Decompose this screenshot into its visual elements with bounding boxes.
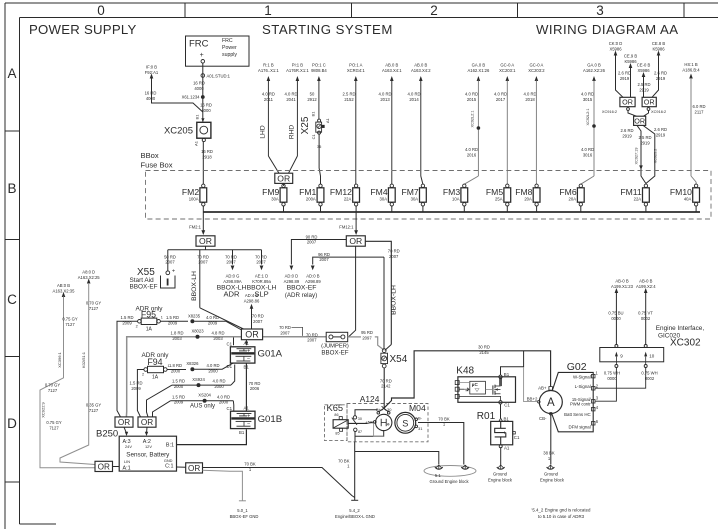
svg-text:70 RD: 70 RD <box>255 254 267 259</box>
svg-text:7127: 7127 <box>89 306 99 311</box>
wire FM2:1 <box>202 212 204 231</box>
svg-text:Ground: Ground <box>493 472 508 477</box>
svg-text:Engine block: Engine block <box>488 478 513 483</box>
svg-text:G02: G02 <box>567 361 587 373</box>
svg-text:0000: 0000 <box>611 316 621 321</box>
svg-text:2007: 2007 <box>307 338 317 343</box>
svg-text:22A: 22A <box>344 196 352 201</box>
svg-text:OR: OR <box>349 236 362 246</box>
relay K65 coil <box>333 420 348 429</box>
svg-text:G01A: G01A <box>258 349 283 360</box>
svg-text:4000: 4000 <box>146 96 156 101</box>
svg-text:2009: 2009 <box>208 320 218 325</box>
svg-text:38 BK: 38 BK <box>543 451 555 456</box>
svg-text:BBox: BBox <box>141 151 159 160</box>
svg-text:4.0 RD: 4.0 RD <box>465 92 478 97</box>
svg-text:BBOX-EF: BBOX-EF <box>287 284 317 291</box>
wire OR1 to X55, 50 RD 2007 <box>167 250 169 271</box>
K48 microcontroller symbol <box>470 381 486 394</box>
svg-text:XC927:19: XC927:19 <box>634 148 638 165</box>
svg-text:4000: 4000 <box>194 86 204 91</box>
svg-text:70 RD: 70 RD <box>388 248 400 253</box>
svg-text:A298.86: A298.86 <box>244 299 260 304</box>
svg-text:22A: 22A <box>634 196 642 201</box>
svg-text:XC916:2: XC916:2 <box>651 109 666 114</box>
svg-text:2009: 2009 <box>122 320 132 325</box>
svg-text:2017: 2017 <box>496 97 506 102</box>
svg-text:XC302: XC302 <box>670 338 701 349</box>
svg-text:1.5 RD: 1.5 RD <box>172 394 185 399</box>
svg-text:2117: 2117 <box>694 109 704 114</box>
K48 left pins <box>455 381 459 385</box>
svg-text:4.0 RD: 4.0 RD <box>206 363 219 368</box>
svg-text:IF:0 B: IF:0 B <box>146 65 157 70</box>
svg-text:2000: 2000 <box>174 384 184 389</box>
svg-text:K48: K48 <box>456 366 474 377</box>
wire middle OR to FM11 right branch <box>643 125 655 183</box>
svg-text:AB:0 B: AB:0 B <box>57 283 70 288</box>
svg-text:A199.X2:4: A199.X2:4 <box>636 284 656 289</box>
svg-text:0002: 0002 <box>641 316 651 321</box>
svg-text:6.0 RD: 6.0 RD <box>692 104 705 109</box>
svg-text:2000: 2000 <box>219 400 229 405</box>
svg-text:OR: OR <box>118 418 130 427</box>
wire BBOX-LH diagonal to OR-G01A <box>200 308 244 329</box>
svg-text:RHD: RHD <box>289 125 296 140</box>
svg-text:7127: 7127 <box>65 322 75 327</box>
svg-text:20A: 20A <box>569 196 577 201</box>
svg-text:96 RD: 96 RD <box>318 252 330 257</box>
svg-text:X5986: X5986 <box>637 68 650 73</box>
svg-text:A1: A1 <box>194 140 199 146</box>
svg-text:A01.STUD:1: A01.STUD:1 <box>207 73 231 78</box>
OR gate OR2 under FM12 <box>346 236 365 246</box>
wire XC302 pin10 to G02 pin2, 0.75 WH 0002 <box>595 368 646 389</box>
fuse FM9 30A <box>280 188 287 202</box>
ground engine block ellipse 5.1 <box>424 466 476 477</box>
svg-text:70 RD: 70 RD <box>306 332 318 337</box>
svg-text:OR: OR <box>245 330 259 340</box>
OR gate top-right <box>642 97 656 106</box>
svg-text:GA.0 B: GA.0 B <box>472 63 486 68</box>
svg-text:D1: D1 <box>227 364 233 369</box>
fuse FM7 30A <box>420 188 427 202</box>
wire to FM10 <box>690 78 692 176</box>
svg-text:2016: 2016 <box>467 152 477 157</box>
svg-text:POWER SUPPLY: POWER SUPPLY <box>29 22 137 37</box>
OR gate OR1 under FM2 <box>196 236 215 246</box>
svg-text:K5986: K5986 <box>624 59 637 64</box>
svg-text:2007: 2007 <box>226 260 236 265</box>
svg-text:86: 86 <box>334 413 338 417</box>
svg-text:2.5 RD: 2.5 RD <box>342 92 355 97</box>
svg-text:4.0 RD: 4.0 RD <box>494 92 507 97</box>
svg-text:2919: 2919 <box>656 132 666 137</box>
wire gray to BB+2 from K48 B1 node <box>524 367 538 402</box>
svg-text:AUS only: AUS only <box>190 404 215 410</box>
fuse FM8 20A <box>533 188 540 202</box>
svg-text:4.0 RD: 4.0 RD <box>212 379 225 384</box>
svg-text:90 RD: 90 RD <box>306 234 318 239</box>
svg-text:1: 1 <box>161 316 163 320</box>
svg-text:A298.89A: A298.89A <box>223 279 242 284</box>
svg-text:4.0 RD: 4.0 RD <box>581 147 594 152</box>
svg-text:0.35 GY: 0.35 GY <box>86 403 102 408</box>
wire 4.0 RD 2000 up to G01A D1 node <box>231 365 235 386</box>
svg-text:M04: M04 <box>409 403 426 413</box>
svg-text:2013: 2013 <box>380 97 390 102</box>
wire FRC output <box>202 63 204 121</box>
wire 0.75 BU 0000 <box>615 293 617 345</box>
svg-text:A199.X1:23: A199.X1:23 <box>611 284 634 289</box>
svg-text:XC925:2: XC925:2 <box>654 149 658 164</box>
wire XC205 to FM2 <box>202 142 204 185</box>
svg-text:5.0_1: 5.0_1 <box>237 508 248 513</box>
fuse FM10 40A <box>693 188 700 202</box>
svg-text:2006: 2006 <box>250 386 260 391</box>
svg-text:2142: 2142 <box>381 384 391 389</box>
svg-text:2015: 2015 <box>467 97 477 102</box>
svg-text:2000: 2000 <box>171 369 181 374</box>
wire 1.5 RD 2009 row XS204 AUS only <box>153 401 171 417</box>
svg-text:2: 2 <box>142 373 144 377</box>
svg-text:70 BK: 70 BK <box>244 462 256 467</box>
svg-text:OR: OR <box>634 116 645 125</box>
svg-text:2919: 2919 <box>639 87 649 92</box>
OR gate B250 A:1 <box>95 461 113 471</box>
svg-text:AD:4 B: AD:4 B <box>245 293 258 298</box>
svg-text:+: + <box>172 269 175 275</box>
connector XC302 box <box>600 348 664 362</box>
svg-text:2919: 2919 <box>656 76 666 81</box>
svg-text:4.0 RD: 4.0 RD <box>378 92 391 97</box>
svg-text:A298.89: A298.89 <box>305 279 321 284</box>
svg-text:4000: 4000 <box>201 108 211 113</box>
wire middle OR to FM11 left branch <box>637 125 646 183</box>
svg-text:G01B: G01B <box>258 414 283 425</box>
svg-text:C1: C1 <box>514 435 520 440</box>
svg-text:A162.X2:26: A162.X2:26 <box>583 68 606 73</box>
svg-text:OR: OR <box>98 462 110 471</box>
wire OR1 to BBOX-LH SLP, 70 RD 2007 <box>261 250 263 265</box>
switch contact 30/87 <box>353 416 356 419</box>
fuse FM6 20A <box>577 188 584 202</box>
svg-text:2007: 2007 <box>253 319 263 324</box>
svg-text:A186.B:4: A186.B:4 <box>682 67 700 72</box>
svg-text:K5986: K5986 <box>652 46 665 51</box>
node XS924 <box>197 383 201 387</box>
svg-text:X5986: X5986 <box>609 46 622 51</box>
svg-text:50 RD: 50 RD <box>164 254 176 259</box>
svg-text:A8:0 D: A8:0 D <box>82 270 95 275</box>
svg-text:A124: A124 <box>360 394 380 404</box>
wire X25 to FM1 <box>319 134 320 184</box>
XC302 pin 9 <box>615 345 618 348</box>
svg-text:BBOX-EF GND: BBOX-EF GND <box>230 514 259 519</box>
wire FM12:1 <box>355 212 357 231</box>
svg-text:100A: 100A <box>189 196 199 201</box>
svg-text:70 BK: 70 BK <box>338 458 350 463</box>
svg-text:2919: 2919 <box>640 140 650 145</box>
svg-text:B: B <box>7 181 16 196</box>
fuse FM1 200A <box>317 188 324 202</box>
svg-text:'5.4_2 Engine gnd is relocated: '5.4_2 Engine gnd is relocated <box>532 508 591 513</box>
svg-text:2919: 2919 <box>620 76 630 81</box>
svg-text:XC922:9: XC922:9 <box>41 401 46 417</box>
wire gray 1.8 RD 2003 line <box>127 337 348 412</box>
wire jumper to X54, 95 RD 2097 <box>348 336 361 338</box>
svg-text:2.6 RD: 2.6 RD <box>654 71 667 76</box>
OR gate B250 C:1 <box>186 463 203 473</box>
svg-text:XC92L2:1: XC92L2:1 <box>471 111 475 128</box>
svg-text:A176R.X1:1: A176R.X1:1 <box>286 68 309 73</box>
svg-text:40A: 40A <box>684 196 692 201</box>
svg-text:70 RD: 70 RD <box>252 314 264 319</box>
svg-text:1.8 RD: 1.8 RD <box>169 363 182 368</box>
wire OR2 bottom output to jumper junction <box>348 246 355 337</box>
ground 5.4_2 Engine/BBOX-L GND <box>351 499 358 501</box>
svg-text:XC205: XC205 <box>164 125 193 136</box>
svg-text:Ground: Ground <box>544 472 559 477</box>
svg-text:2007: 2007 <box>319 257 329 262</box>
svg-text:B1: B1 <box>239 430 245 435</box>
wire solenoid bottom to switch-87 wire <box>355 430 384 436</box>
K48 drain bar <box>499 378 501 386</box>
svg-text:0002: 0002 <box>645 376 655 381</box>
svg-text:2919: 2919 <box>622 133 632 138</box>
svg-text:Batt Sens HC: Batt Sens HC <box>564 412 591 417</box>
svg-text:30 RD: 30 RD <box>478 344 490 349</box>
svg-text:GND: GND <box>164 458 173 463</box>
svg-text:XCRG4:1: XCRG4:1 <box>347 68 366 73</box>
wire OR1 output rail <box>205 246 207 250</box>
wire G01B B1 down to B250 B:1 <box>177 429 247 444</box>
svg-text:2003: 2003 <box>213 336 223 341</box>
wire F95 left 1.5 RD 2009 <box>117 321 138 417</box>
svg-text:16 RD: 16 RD <box>193 81 205 86</box>
svg-text:CB-: CB- <box>539 416 547 421</box>
svg-text:50: 50 <box>310 92 315 97</box>
svg-text:F92:A1: F92:A1 <box>145 70 159 75</box>
wire switch-30 to B+ rail <box>355 410 378 416</box>
wire XC302 pin9 to G02 pin3, 0.75 WH 0000 <box>595 368 616 402</box>
svg-text:4.0 RD: 4.0 RD <box>284 92 297 97</box>
svg-text:R:1 B: R:1 B <box>263 63 274 68</box>
svg-text:4.0 RD: 4.0 RD <box>465 147 478 152</box>
svg-text:BBOX-EF: BBOX-EF <box>321 350 348 357</box>
node X8326 <box>190 367 194 371</box>
svg-text:70 BK: 70 BK <box>438 416 450 421</box>
svg-text:0.75 GY: 0.75 GY <box>46 420 62 425</box>
svg-text:2009: 2009 <box>168 320 178 325</box>
svg-text:1A: 1A <box>146 327 153 333</box>
svg-text:HS:1 B: HS:1 B <box>684 62 697 67</box>
OR gate above FM9 <box>275 173 293 183</box>
svg-text:A1: A1 <box>325 117 330 123</box>
svg-text:0.70 GY: 0.70 GY <box>86 301 102 306</box>
svg-text:2145: 2145 <box>479 350 489 355</box>
svg-text:30A: 30A <box>380 196 388 201</box>
svg-text:2918: 2918 <box>202 154 212 159</box>
wire K65 coil to +50a <box>348 422 367 424</box>
OR gate top-left <box>620 97 635 106</box>
svg-text:Ground Engine block: Ground Engine block <box>429 479 469 484</box>
svg-text:FM12:1: FM12:1 <box>339 225 354 230</box>
svg-text:1A: 1A <box>152 375 159 381</box>
svg-text:A163.X2:35: A163.X2:35 <box>53 288 76 293</box>
svg-text:20A: 20A <box>524 196 532 201</box>
wire K48 B1 to 30 RD line <box>501 351 524 375</box>
svg-text:95 RD: 95 RD <box>361 330 373 335</box>
wire M04 to engine block ground 70 BK <box>418 423 464 465</box>
svg-text:A176..X1:1: A176..X1:1 <box>258 68 279 73</box>
fuse FM5 25A <box>504 188 511 202</box>
svg-text:0.75 WH: 0.75 WH <box>641 371 657 376</box>
svg-text:D: D <box>7 416 17 431</box>
svg-text:C1: C1 <box>504 403 510 408</box>
svg-text:12V: 12V <box>145 444 152 449</box>
svg-text:XC916:2: XC916:2 <box>602 109 617 114</box>
svg-text:4.0 RD: 4.0 RD <box>217 394 230 399</box>
svg-text:2912: 2912 <box>307 97 317 102</box>
svg-text:AD:0 B: AD:0 B <box>306 274 319 279</box>
svg-text:AB.0 B: AB.0 B <box>385 63 398 68</box>
svg-text:X8023: X8023 <box>191 329 204 334</box>
svg-text:+: + <box>200 52 204 59</box>
svg-text:16 RD: 16 RD <box>145 91 157 96</box>
svg-text:4.0 RD: 4.0 RD <box>523 92 536 97</box>
svg-text:A298.89: A298.89 <box>284 279 300 284</box>
wire to OR left <box>616 55 624 97</box>
svg-text:C1: C1 <box>227 406 233 411</box>
svg-text:2041: 2041 <box>286 97 296 102</box>
svg-text:ADR: ADR <box>223 290 240 299</box>
svg-text:2003: 2003 <box>172 336 182 341</box>
svg-text:XS924: XS924 <box>192 377 205 382</box>
wire from F92 to XC205 <box>152 79 203 113</box>
svg-text:0: 0 <box>97 3 105 18</box>
svg-text:2007: 2007 <box>280 331 290 336</box>
svg-text:2.6 RD: 2.6 RD <box>618 71 631 76</box>
K48 MOSFET symbol <box>492 385 494 394</box>
svg-text:F94: F94 <box>147 357 162 367</box>
OR gate feeding G01A <box>241 329 262 340</box>
fuse FM2 100A <box>200 188 207 202</box>
svg-text:XS204: XS204 <box>198 393 211 398</box>
svg-text:(ADR relay): (ADR relay) <box>285 292 317 299</box>
svg-text:2007: 2007 <box>198 260 208 265</box>
svg-text:2.6 RD: 2.6 RD <box>654 127 667 132</box>
svg-text:FRC: FRC <box>222 38 233 44</box>
fuse FM4 30A <box>388 188 395 202</box>
svg-text:30: 30 <box>358 417 362 421</box>
svg-text:3015: 3015 <box>583 97 593 102</box>
wire A124 ground exit 70 BK <box>354 442 356 500</box>
wire OR1 BBOX-LH branch, 70 RD 2007 <box>199 250 201 308</box>
svg-text:GA.0 B: GA.0 B <box>587 63 601 68</box>
wire branch to engine block ground <box>355 452 439 465</box>
svg-text:0.75 VT: 0.75 VT <box>638 311 653 316</box>
svg-text:CK:0 D: CK:0 D <box>609 41 623 46</box>
svg-text:85: 85 <box>335 431 339 435</box>
svg-text:AB-0 B: AB-0 B <box>615 279 628 284</box>
svg-text:16 RD: 16 RD <box>200 103 212 108</box>
wire to FM3 <box>464 176 478 184</box>
svg-text:2: 2 <box>430 3 438 18</box>
svg-text:µC: µC <box>472 382 479 387</box>
svg-text:70 RD: 70 RD <box>225 254 237 259</box>
svg-text:R01: R01 <box>477 411 496 422</box>
svg-text:4.0 RD: 4.0 RD <box>206 315 219 320</box>
svg-text:30A: 30A <box>411 196 419 201</box>
svg-text:LIN: LIN <box>124 459 130 464</box>
svg-text:PO:1 A: PO:1 A <box>349 63 362 68</box>
svg-text:GC-0 A: GC-0 A <box>530 63 544 68</box>
svg-text:Fuse Box: Fuse Box <box>141 161 173 170</box>
svg-text:2152: 2152 <box>344 97 354 102</box>
wire to FM6 <box>581 176 594 184</box>
svg-text:C:1: C:1 <box>165 464 173 470</box>
svg-text:10: 10 <box>649 354 655 359</box>
svg-text:X8235: X8235 <box>188 313 201 318</box>
svg-text:OR: OR <box>199 236 212 246</box>
svg-text:CE.9 B: CE.9 B <box>624 54 637 59</box>
svg-text:30A: 30A <box>271 196 279 201</box>
svg-text:L-Signal: L-Signal <box>575 384 591 389</box>
svg-text:A162.X1:26: A162.X1:26 <box>467 68 490 73</box>
svg-text:25A: 25A <box>495 196 503 201</box>
svg-text:9808.B4: 9808.B4 <box>311 68 327 73</box>
svg-text:Engine Interface,: Engine Interface, <box>656 325 705 332</box>
svg-text:2.5 RD: 2.5 RD <box>638 135 651 140</box>
svg-text:A1: A1 <box>244 406 250 411</box>
svg-text:B1: B1 <box>504 417 510 422</box>
svg-text:A1: A1 <box>504 446 510 451</box>
svg-text:B-: B- <box>418 416 423 421</box>
wire 0.75 VT 0002 <box>645 293 647 345</box>
BBox fuse box dashed border <box>146 171 712 220</box>
wire 4.0 RD 2009 to OR-G01A <box>194 321 242 330</box>
svg-text:A163.X2:25: A163.X2:25 <box>78 275 101 280</box>
svg-text:K70R.89a: K70R.89a <box>252 279 271 284</box>
fuse FM12 22A <box>353 188 360 202</box>
wire 30 RD 2145 from B+ to G02 AB+ <box>384 351 551 409</box>
svg-text:S: S <box>402 418 408 428</box>
svg-text:AD:0 G: AD:0 G <box>226 274 240 279</box>
wire G02 CB- to ground 38 BK <box>550 414 552 465</box>
svg-text:31: 31 <box>418 426 423 431</box>
svg-text:X61.1234: X61.1234 <box>182 95 201 100</box>
svg-text:W-Signal: W-Signal <box>573 375 591 380</box>
svg-text:CE.8 B: CE.8 B <box>652 41 665 46</box>
wire 96 RD vertical from relay branch to X54 <box>383 257 385 349</box>
svg-text:0.70 GY: 0.70 GY <box>45 383 61 388</box>
svg-text:XC396:1: XC396:1 <box>57 351 62 367</box>
svg-text:2097: 2097 <box>362 335 372 340</box>
svg-text:WIRING DIAGRAM AA: WIRING DIAGRAM AA <box>536 22 678 37</box>
svg-text:LHD: LHD <box>260 125 267 138</box>
wire C:1 OR to engine ground 70 BK <box>203 468 355 498</box>
svg-text:A163.X4:1: A163.X4:1 <box>382 68 402 73</box>
svg-text:0.75 GY: 0.75 GY <box>62 317 78 322</box>
svg-text:2009: 2009 <box>174 400 184 405</box>
wire OR2 right branch converge to X54 <box>385 345 392 351</box>
svg-text:XC92L2:1: XC92L2:1 <box>586 109 590 126</box>
wire F95 right 1.5 RD 2009 <box>160 320 188 322</box>
svg-text:OR: OR <box>141 418 153 427</box>
svg-text:supply: supply <box>222 52 237 58</box>
svg-text:4.0 RD: 4.0 RD <box>581 92 594 97</box>
